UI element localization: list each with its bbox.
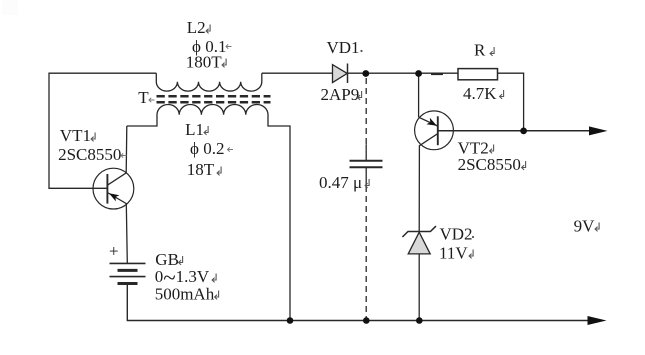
svg-text:VD1: VD1: [327, 38, 360, 57]
svg-text:R: R: [474, 41, 486, 60]
svg-text:L2: L2: [187, 18, 206, 37]
svg-text:L1: L1: [185, 120, 204, 139]
svg-text:2AP9: 2AP9: [321, 85, 360, 104]
svg-text:4.7K: 4.7K: [463, 84, 497, 103]
svg-text:9V: 9V: [574, 217, 596, 236]
svg-text:ϕ 0.2: ϕ 0.2: [190, 139, 224, 158]
svg-text:18T: 18T: [187, 160, 215, 179]
svg-text:2SC8550: 2SC8550: [58, 145, 121, 164]
svg-text:VT1: VT1: [60, 126, 91, 145]
svg-text:+: +: [109, 242, 119, 261]
svg-text:T: T: [138, 88, 149, 107]
svg-text:11V: 11V: [439, 243, 468, 262]
svg-text:500mAh: 500mAh: [155, 284, 215, 303]
svg-text:VD2: VD2: [440, 224, 473, 243]
svg-text:180T: 180T: [186, 52, 223, 71]
svg-text:0.47 μ: 0.47 μ: [319, 173, 362, 192]
svg-text:2SC8550: 2SC8550: [458, 155, 521, 174]
